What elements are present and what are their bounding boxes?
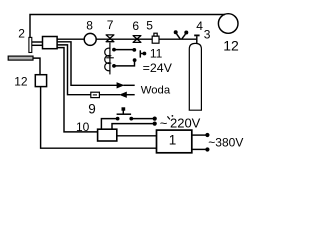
- wire meter 12 down to power source: [41, 87, 157, 149]
- gas cylinder 3: [189, 43, 201, 110]
- svg-text:10: 10: [76, 120, 90, 134]
- node 220V terminal upper: [153, 117, 157, 121]
- wire coil terminal B: [114, 61, 135, 66]
- wire water supply stub: [123, 84, 134, 86]
- wire contact to 220V terminal: [131, 118, 154, 120]
- wire gas line gauge 8 to cylinder 3: [96, 38, 196, 40]
- control box 10: [98, 129, 117, 141]
- node 380V terminal upper: [205, 133, 209, 137]
- node coil B left: [112, 64, 116, 68]
- svg-text:~380V: ~380V: [208, 135, 243, 149]
- svg-text:3: 3: [204, 28, 211, 42]
- power source 1: [157, 130, 192, 153]
- workpiece bar (grey): [8, 56, 33, 60]
- wire workpiece to rotameter 12: [33, 58, 40, 75]
- node coil B right: [133, 58, 137, 62]
- cylinder valve: [196, 36, 198, 43]
- wire filter 9 to arrow: [99, 94, 120, 96]
- node 220V terminal lower: [153, 122, 157, 126]
- svg-text:9: 9: [88, 101, 96, 116]
- wire riser to button contact: [101, 119, 116, 130]
- wire box10 to power source 1: [117, 135, 157, 137]
- wire 380V feed lower: [192, 148, 207, 150]
- gauge 8 (circle): [84, 33, 96, 45]
- button contact right: [129, 117, 133, 121]
- wire bar to box upper: [32, 41, 43, 43]
- pushbutton actuator: [122, 107, 126, 110]
- accent mark of 220V label: [167, 116, 170, 119]
- rotameter 12 (top right circle): [218, 14, 238, 34]
- svg-text:5: 5: [146, 19, 153, 33]
- svg-text:12: 12: [14, 75, 28, 89]
- svg-text:7: 7: [107, 18, 114, 32]
- svg-text:=24V: =24V: [143, 61, 173, 75]
- wire water return: [57, 45, 91, 95]
- meter box 12 (left): [35, 75, 46, 87]
- electrode pair 4: [177, 34, 181, 39]
- wire gas line plasmatron to gauge 8: [57, 38, 84, 40]
- node 380V terminal lower: [205, 147, 209, 151]
- wire riser 2 to 220V: [112, 124, 155, 130]
- node coil A left: [112, 48, 116, 52]
- wire coil terminal A: [114, 49, 134, 51]
- wire water supply: [57, 42, 117, 86]
- svg-text:~ 220V: ~ 220V: [160, 115, 201, 130]
- plasmatron body box: [43, 37, 58, 49]
- arrow water out: [117, 83, 124, 88]
- wire to control box 10: [57, 48, 98, 132]
- wire top bus from plasmatron to rotameter 12: [30, 15, 225, 38]
- arrow water in: [120, 92, 127, 97]
- svg-text:2: 2: [18, 27, 25, 41]
- pipe below valve 7: [109, 43, 111, 75]
- coil tick: [106, 57, 114, 59]
- svg-text:8: 8: [86, 18, 93, 32]
- valve 6: [133, 36, 141, 43]
- wire bar to box lower: [32, 44, 43, 46]
- solenoid valve 5: [152, 36, 159, 43]
- plug 11: [139, 50, 141, 57]
- electrode bar 2: [29, 37, 32, 52]
- svg-text:12: 12: [223, 38, 239, 54]
- svg-text:11: 11: [150, 47, 163, 61]
- wire 380V feed upper: [192, 134, 207, 136]
- button contact left: [116, 117, 120, 121]
- solenoid coil on pipe: [105, 48, 111, 71]
- wire water return stub: [126, 94, 134, 96]
- svg-text:1: 1: [169, 133, 177, 148]
- filter 9: [91, 92, 100, 97]
- node coil A right: [132, 48, 136, 52]
- svg-text:6: 6: [132, 19, 139, 33]
- svg-text:Woda: Woda: [141, 84, 171, 96]
- svg-text:4: 4: [196, 19, 203, 33]
- valve 7: [106, 35, 114, 42]
